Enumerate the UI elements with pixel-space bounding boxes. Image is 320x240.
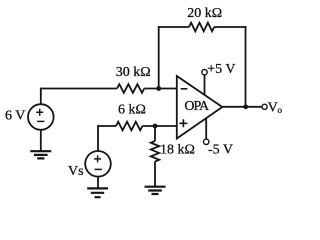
wire: 6V source bottom lead to ground <box>40 130 42 151</box>
voltage source Vs (circle) <box>85 151 111 177</box>
wire: 6V source top lead up to inverting branch <box>40 88 42 105</box>
resistor R4 18 kOhm (vertical) <box>151 141 159 162</box>
svg-text:V: V <box>268 101 278 116</box>
wire: horizontal from 6V to 30k resistor <box>40 88 117 90</box>
node: output junction <box>243 104 248 109</box>
node: non-inverting input junction <box>153 124 158 129</box>
voltage source V1 6V (circle) <box>28 104 54 130</box>
op-amp non-inverting input plus mark <box>179 119 187 127</box>
wire: feedback loop left vertical (inverting node to top) <box>158 27 160 89</box>
terminal: +5V supply (open circle) <box>202 70 207 75</box>
wire: feedback top horizontal left segment <box>158 26 189 28</box>
wire: feedback right vertical down to output node <box>245 26 247 107</box>
wire: op-amp output to Vo terminal <box>222 106 262 108</box>
polarity minus sign inside 6V source <box>37 120 44 122</box>
resistor R3 6 kOhm <box>116 122 142 131</box>
op-amp U1 triangle <box>177 76 223 139</box>
terminal: -5V supply (open circle) <box>204 139 209 144</box>
polarity minus sign inside Vs source <box>95 168 102 170</box>
svg-text:OPA: OPA <box>184 99 210 114</box>
wire: junction down to 18k resistor <box>154 126 156 141</box>
resistor R2 20 kOhm (feedback) <box>189 23 214 32</box>
wire: negative supply lead <box>205 118 207 139</box>
svg-text:-5 V: -5 V <box>208 143 233 158</box>
resistor R1 30 kOhm <box>117 84 144 93</box>
svg-text:20 kΩ: 20 kΩ <box>187 6 222 21</box>
svg-text:18 kΩ: 18 kΩ <box>160 143 195 158</box>
ground (below 6V source) <box>30 151 51 158</box>
polarity plus sign inside 6V source <box>36 109 43 116</box>
svg-text:+5 V: +5 V <box>207 62 235 77</box>
node: inverting input junction <box>156 86 161 91</box>
svg-text:Vs: Vs <box>68 164 84 179</box>
wire: 6k resistor to non-inverting input <box>142 125 176 127</box>
wire: Vs bottom lead to ground <box>97 177 99 189</box>
ground (below Vs source) <box>87 188 108 197</box>
wire: 30k resistor to inverting input <box>144 88 177 90</box>
svg-text:6 V: 6 V <box>5 109 25 124</box>
ground (below 18k resistor) <box>145 187 166 194</box>
svg-text:30 kΩ: 30 kΩ <box>116 65 151 80</box>
wire: positive supply lead <box>204 75 206 95</box>
svg-text:6 kΩ: 6 kΩ <box>118 103 146 118</box>
polarity plus sign inside Vs source <box>94 155 101 162</box>
op-amp inverting input minus mark <box>181 88 188 90</box>
terminal: output Vo (open circle) <box>262 104 267 109</box>
wire: 18k resistor to ground <box>154 162 156 187</box>
wire: feedback top horizontal right segment <box>214 26 246 28</box>
wire: Vs top lead up to non-inverting branch <box>97 125 99 151</box>
wire: horizontal from Vs to 6k resistor <box>97 125 116 127</box>
svg-text:o: o <box>278 105 283 115</box>
